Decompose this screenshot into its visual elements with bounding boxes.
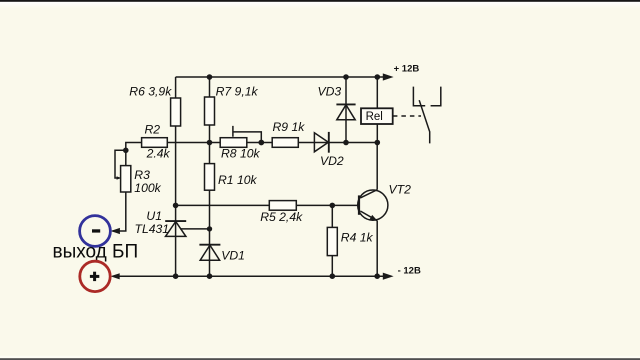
wire R3 bottom to minus output xyxy=(113,192,126,231)
svg-text:- 12В: - 12В xyxy=(398,266,421,277)
svg-text:VT2: VT2 xyxy=(389,183,412,197)
diode VD3 cathode bar xyxy=(336,103,355,105)
wire VD3 branch xyxy=(345,77,347,143)
arrow +12V xyxy=(383,73,394,80)
resistor R6 xyxy=(171,98,181,126)
VT2 collector lead xyxy=(360,190,377,198)
junction VD2 / VD3 node xyxy=(343,140,349,146)
diode VD3 triangle xyxy=(337,105,355,120)
svg-text:R1 10k: R1 10k xyxy=(218,173,258,187)
VT2 emitter arrowhead xyxy=(369,215,377,221)
wire VT2 emitter to bottom rail xyxy=(376,221,378,277)
arrow -12V xyxy=(383,273,394,280)
plus sign xyxy=(90,275,99,278)
svg-text:2.4k: 2.4k xyxy=(146,146,171,160)
svg-text:TL431: TL431 xyxy=(135,222,170,236)
resistor R9 xyxy=(272,138,298,148)
wire base rail TL431 to VT2 xyxy=(176,204,359,206)
shunt regulator U1 TL431 cathode bar xyxy=(165,220,186,222)
VT2 base bar xyxy=(358,195,360,214)
svg-text:R8 10k: R8 10k xyxy=(221,147,261,161)
diode VD1 triangle xyxy=(200,245,219,260)
U1 TL431 triangle xyxy=(166,222,186,237)
wire R4 branch xyxy=(331,205,333,276)
arrow into minus terminal xyxy=(111,228,120,234)
svg-text:VD1: VD1 xyxy=(221,248,245,262)
junction top rail / relay xyxy=(375,74,381,80)
svg-text:VD2: VD2 xyxy=(320,154,344,168)
minus sign xyxy=(92,229,100,232)
junction TL431 cathode / base rail xyxy=(173,203,179,209)
svg-text:VD3: VD3 xyxy=(318,85,342,99)
wire R3 wiper link xyxy=(115,150,126,178)
svg-text:выход БП: выход БП xyxy=(53,242,139,263)
svg-text:R7 9,1k: R7 9,1k xyxy=(216,85,259,99)
junction R4 top xyxy=(330,203,336,209)
relay coil Rel box xyxy=(361,108,393,124)
junction bottom rail / TL431 anode xyxy=(173,273,179,279)
wire top +12V rail xyxy=(176,76,384,78)
wire relay coil branch xyxy=(376,77,378,143)
VT2 emitter lead xyxy=(360,211,377,221)
wire R1/VD1 branch xyxy=(209,143,211,277)
wire VT2 collector to relay node xyxy=(376,143,378,190)
resistor R8 trimmer xyxy=(220,138,247,148)
svg-text:R9 1k: R9 1k xyxy=(273,120,306,134)
transistor VT2 body circle xyxy=(358,190,388,220)
diode VD2 triangle xyxy=(314,133,328,152)
junction bottom rail / VD1 xyxy=(207,273,213,279)
svg-text:U1: U1 xyxy=(146,209,162,223)
dashed mechanical link xyxy=(393,115,421,117)
svg-text:R6 3,9k: R6 3,9k xyxy=(129,85,172,99)
junction top rail / VD3 xyxy=(343,74,349,80)
junction relay / collector node xyxy=(375,140,381,146)
svg-text:R2: R2 xyxy=(145,123,161,137)
svg-text:Rel: Rel xyxy=(366,111,383,123)
junction R3 top xyxy=(123,148,129,154)
resistor R1 xyxy=(205,164,215,191)
relay contact left terminal xyxy=(413,87,425,106)
arrow into plus terminal xyxy=(110,273,119,279)
svg-text:100k: 100k xyxy=(134,181,161,195)
R3 wiper arrowhead xyxy=(117,176,121,179)
wire R7 branch xyxy=(209,77,211,143)
junction bottom rail / emitter xyxy=(374,273,380,279)
resistor R5 xyxy=(269,201,296,211)
plus output terminal circle xyxy=(80,261,110,291)
junction U1 ref / R1 / VD1 xyxy=(207,226,212,231)
wire U1 reference pin xyxy=(180,228,209,230)
svg-text:R5 2,4k: R5 2,4k xyxy=(260,210,303,224)
wire middle rail and R3 top xyxy=(126,143,377,166)
resistor R4 xyxy=(327,227,337,255)
relay contact right terminal xyxy=(431,87,441,106)
minus output terminal circle xyxy=(80,216,111,247)
junction bottom rail / R4 xyxy=(330,273,336,279)
diode VD2 cathode bar xyxy=(328,132,330,153)
wire R6/TL431 vertical branch xyxy=(175,77,177,276)
resistor R3 trimmer xyxy=(121,166,131,192)
diode VD1 cathode bar xyxy=(199,244,220,246)
svg-text:R4 1k: R4 1k xyxy=(341,231,374,245)
junction middle rail / R7 / R1 xyxy=(207,140,213,146)
relay contact lever xyxy=(419,100,430,143)
resistor R7 xyxy=(205,97,215,125)
resistor R2 xyxy=(142,138,168,148)
wire bottom -12V rail xyxy=(119,275,384,277)
junction top rail / R7 xyxy=(207,74,213,80)
R8 wiper link xyxy=(233,126,261,143)
junction R8 wiper xyxy=(258,140,264,146)
svg-text:+ 12В: + 12В xyxy=(394,63,420,74)
